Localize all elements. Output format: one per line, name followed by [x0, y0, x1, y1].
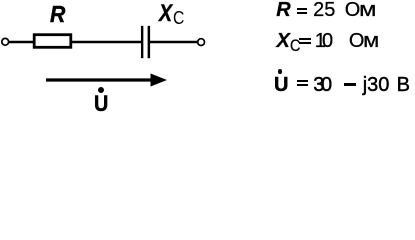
- label R (resistor): [50, 3, 65, 27]
- value text line 3: U = 30 - j30 V: [274, 74, 410, 97]
- label XC (capacitor): [159, 2, 186, 31]
- capacitor XC: right plate: [148, 26, 151, 58]
- wire: resistor to capacitor: [71, 41, 141, 43]
- resistor R body: [34, 35, 71, 48]
- terminal node: left input: [2, 38, 9, 45]
- voltage arrow U: shaft: [46, 78, 152, 81]
- value text line 1: R = 25 Om: [276, 0, 373, 22]
- circuit schematic SVG: [0, 0, 415, 120]
- value text line 3 phasor dot: [278, 69, 283, 74]
- value text line 2: XC = 10 Om: [277, 30, 377, 57]
- wire: left terminal to resistor: [8, 41, 34, 43]
- capacitor XC: left plate: [141, 26, 143, 58]
- wire: capacitor to right terminal: [150, 41, 198, 43]
- label U phasor dot (under arrow): [98, 87, 104, 93]
- voltage arrow U: head: [151, 74, 168, 87]
- terminal node: right output: [198, 39, 205, 46]
- label U (under arrow): [94, 93, 108, 115]
